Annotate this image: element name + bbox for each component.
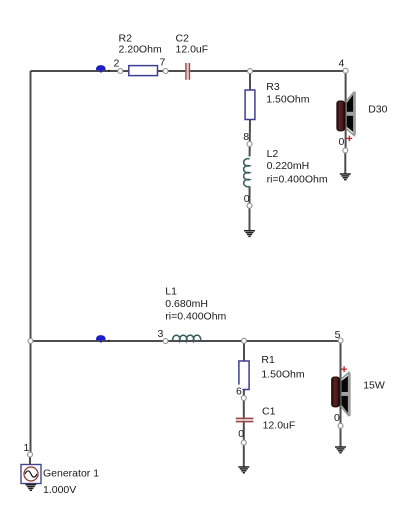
- resistor R2: [119, 32, 162, 75]
- wire: left vertical bus from top rail to generator: [30, 71, 32, 452]
- ground (generator): [25, 485, 36, 491]
- resistor R1: [239, 361, 249, 390]
- svg-text:6: 6: [236, 385, 242, 397]
- wire: L2 bottom to node 0: [249, 187, 251, 204]
- svg-text:2.20Ohm: 2.20Ohm: [119, 44, 162, 56]
- svg-text:0: 0: [238, 428, 244, 440]
- svg-text:4: 4: [339, 58, 345, 70]
- node 8 terminal: [243, 131, 252, 147]
- wire: L2 node 0 down to ground: [249, 208, 251, 231]
- node 0 terminal (L2 branch): [244, 193, 252, 208]
- svg-text:R3: R3: [266, 81, 280, 93]
- svg-text:0: 0: [339, 136, 345, 148]
- inductor L2: [244, 148, 328, 187]
- svg-text:7: 7: [160, 57, 166, 69]
- node 3 terminal: [158, 328, 169, 344]
- svg-text:12.0uF: 12.0uF: [176, 44, 209, 56]
- node 4 terminal: [339, 58, 349, 74]
- node 2 terminal: [114, 58, 123, 74]
- probe arrow (blue, top rail): [96, 65, 110, 72]
- svg-text:R1: R1: [261, 354, 275, 366]
- svg-text:L1: L1: [165, 286, 177, 298]
- node 5 terminal: [335, 329, 343, 343]
- wire: 15W node 0 down to ground: [340, 429, 342, 448]
- node 6 label (white halo over R1 corner): [235, 385, 243, 398]
- resistor R3: [245, 81, 310, 120]
- svg-text:5: 5: [335, 329, 341, 341]
- junction node (top rail / R3 tap): [248, 69, 253, 74]
- ground (C1 branch): [238, 467, 249, 473]
- wire: node 1 down to generator: [29, 457, 31, 465]
- svg-text:D30: D30: [368, 103, 387, 115]
- svg-text:1.50Ohm: 1.50Ohm: [261, 369, 304, 381]
- node 0 terminal (D30 tweeter): [339, 136, 348, 153]
- 15W polarity plus mark: [341, 366, 347, 372]
- node 7 terminal: [160, 57, 169, 74]
- D30 polarity plus mark: [347, 136, 353, 142]
- generator G1 (AC source): [21, 465, 99, 497]
- wire: bottom junction down to R1: [243, 341, 245, 361]
- svg-text:Generator 1: Generator 1: [43, 467, 99, 479]
- node 0 terminal (15W woofer): [334, 412, 343, 428]
- svg-text:12.0uF: 12.0uF: [263, 420, 296, 432]
- svg-text:L2: L2: [267, 148, 279, 160]
- svg-text:1: 1: [24, 442, 30, 454]
- svg-text:1.50Ohm: 1.50Ohm: [266, 94, 309, 106]
- wire: D30 node 0 down to ground: [344, 153, 346, 174]
- node 6 terminal: [241, 396, 246, 401]
- wire: node 6 through C1 to node 0: [243, 401, 245, 441]
- wire: R3 bottom to node 8 and L2 top: [249, 120, 251, 157]
- wire: node 4 down through speaker D30: [345, 71, 347, 148]
- wire: bottom horizontal rail (node 3 / L1 / node 5): [31, 340, 341, 342]
- probe arrow (blue, bottom rail): [96, 335, 110, 342]
- svg-text:0: 0: [244, 193, 250, 205]
- capacitor C1: [236, 406, 296, 432]
- svg-text:2: 2: [114, 58, 120, 70]
- svg-text:1.000V: 1.000V: [43, 484, 76, 496]
- node 1 terminal (generator): [24, 442, 33, 457]
- wire: top junction down to R3: [249, 71, 251, 90]
- svg-text:8: 8: [243, 131, 249, 143]
- svg-text:15W: 15W: [363, 380, 385, 392]
- ground (D30 tweeter): [340, 174, 351, 180]
- svg-text:R2: R2: [119, 32, 133, 44]
- node 0 terminal (C1 branch): [238, 428, 246, 445]
- capacitor C2: [176, 32, 209, 80]
- svg-text:0.680mH: 0.680mH: [165, 298, 208, 310]
- ground (15W woofer): [335, 447, 346, 453]
- svg-text:C1: C1: [262, 406, 276, 418]
- speaker D30 (tweeter driver): [337, 92, 388, 142]
- svg-text:0: 0: [334, 412, 340, 424]
- wire: node 5 down through speaker 15W: [340, 341, 342, 424]
- svg-text:0.220mH: 0.220mH: [267, 160, 310, 172]
- svg-text:ri=0.400Ohm: ri=0.400Ohm: [267, 173, 328, 185]
- svg-text:3: 3: [158, 328, 164, 340]
- svg-text:C2: C2: [176, 32, 190, 44]
- wire: top horizontal rail (node 2 / R2 / C2 / node 4): [31, 70, 346, 72]
- junction node (bottom rail / R1 tap): [242, 338, 247, 343]
- ground (L2 branch): [244, 231, 255, 237]
- junction node (left bus / bottom rail): [28, 339, 33, 344]
- inductor L1: [165, 286, 226, 342]
- svg-text:ri=0.400Ohm: ri=0.400Ohm: [165, 311, 226, 323]
- wire: R1 bottom to node 6: [243, 390, 245, 396]
- wire: C1 node 0 down to ground: [243, 445, 245, 467]
- speaker 15W (woofer driver): [332, 366, 385, 416]
